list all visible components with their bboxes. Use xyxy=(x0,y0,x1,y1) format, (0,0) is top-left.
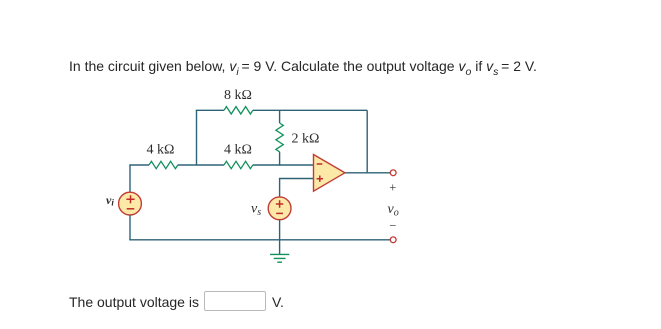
label 2 kOhm xyxy=(292,131,320,146)
wire: noninverting input xyxy=(280,179,314,198)
question text xyxy=(69,58,537,74)
svg-text:4 kΩ: 4 kΩ xyxy=(224,142,252,157)
resistor R3 4 kOhm right xyxy=(224,161,253,168)
source Vs plus xyxy=(276,200,283,207)
source Vi plus xyxy=(126,195,134,203)
svg-text:vi: vi xyxy=(106,193,114,208)
svg-text:4 kΩ: 4 kΩ xyxy=(147,142,175,157)
label 8 kOhm xyxy=(224,88,252,103)
source Vi minus xyxy=(127,208,135,210)
wire: bottom rail xyxy=(129,239,390,241)
svg-text:2 kΩ: 2 kΩ xyxy=(292,131,320,146)
wire: 2k top stub xyxy=(279,110,281,123)
op-amp U1 xyxy=(314,155,345,192)
wire: output xyxy=(345,172,390,174)
answer line xyxy=(69,291,284,311)
source Vs minus xyxy=(276,212,283,214)
wire: ground stem xyxy=(279,220,281,255)
wire: top right segment xyxy=(253,109,367,111)
label vs xyxy=(251,202,261,219)
resistor R1 8 kOhm xyxy=(224,107,253,114)
svg-text:−: − xyxy=(389,218,396,232)
label vi xyxy=(106,193,114,208)
wire: left source bottom vertical xyxy=(129,215,131,240)
svg-text:8 kΩ: 8 kΩ xyxy=(224,88,252,103)
wire: top loop left vertical xyxy=(196,110,198,165)
label output minus xyxy=(389,218,396,232)
ground xyxy=(270,254,289,262)
source Vi xyxy=(119,192,142,215)
svg-text:vs: vs xyxy=(251,202,261,219)
label vo xyxy=(388,202,399,219)
wire: left source top vertical xyxy=(129,165,131,192)
label 4 kOhm right xyxy=(224,142,252,157)
svg-text:vo: vo xyxy=(388,202,399,219)
terminal: output top xyxy=(390,170,396,176)
source Vs xyxy=(268,197,291,220)
label output plus xyxy=(389,181,396,195)
op-amp minus pin xyxy=(317,163,323,165)
svg-text:+: + xyxy=(389,181,396,195)
terminal: output bottom xyxy=(390,237,396,243)
wire: middle left segment xyxy=(129,164,149,166)
wire: feedback vertical xyxy=(366,110,368,173)
wire: middle to inverting input xyxy=(253,164,314,166)
wire: 2k bottom stub xyxy=(279,152,281,166)
label 4 kOhm left xyxy=(147,142,175,157)
wire: middle segment between resistors xyxy=(178,164,224,166)
op-amp plus pin xyxy=(317,176,323,182)
wire: top left segment xyxy=(196,109,224,111)
resistor R2 4 kOhm left xyxy=(149,161,178,168)
resistor R4 2 kOhm xyxy=(276,123,283,152)
